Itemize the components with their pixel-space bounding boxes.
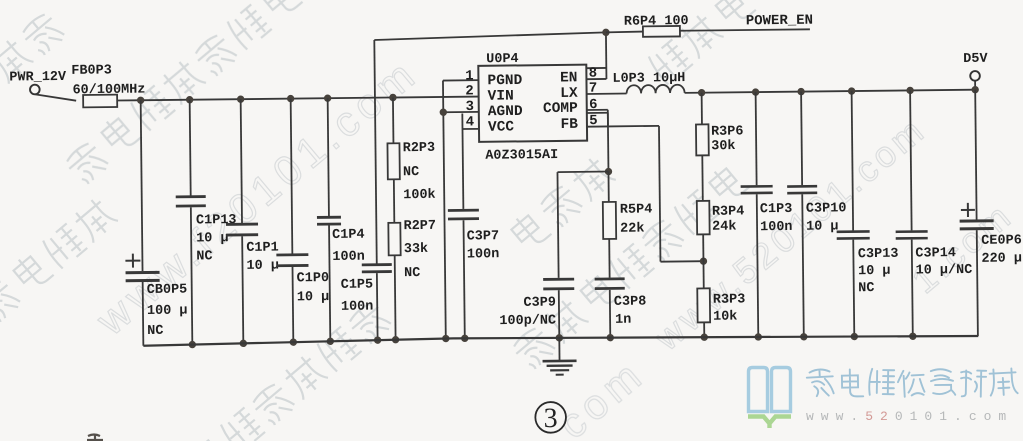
svg-text:33k: 33k xyxy=(404,242,428,257)
svg-text:R3P4: R3P4 xyxy=(712,204,745,219)
svg-text:FB: FB xyxy=(560,117,578,133)
svg-text:1n: 1n xyxy=(615,313,631,328)
wire terminal to bead xyxy=(35,94,76,101)
svg-text:10 μ: 10 μ xyxy=(297,290,330,305)
capacitor CB0P5 100u NC electrolytic xyxy=(124,100,188,346)
svg-text:C1P5: C1P5 xyxy=(341,278,374,293)
junction C3P13 bottom xyxy=(851,333,858,340)
ground symbol xyxy=(542,338,576,375)
svg-text:U0P4: U0P4 xyxy=(486,52,519,67)
junction R3P6 top xyxy=(698,89,705,96)
svg-text:PWR_12V: PWR_12V xyxy=(9,70,67,86)
svg-text:10 μ: 10 μ xyxy=(806,219,839,234)
ferrite bead FB0P3 60/100MHz xyxy=(71,63,145,108)
svg-text:C3P8: C3P8 xyxy=(614,295,647,310)
junction C1P13 bottom xyxy=(189,341,196,348)
junction FB divider xyxy=(700,257,707,264)
junction R3P3 bottom xyxy=(701,333,708,340)
junction C1P4 top xyxy=(324,94,331,101)
svg-text:C1P13: C1P13 xyxy=(196,213,237,228)
resistor R6P4 100 xyxy=(606,14,689,37)
resistor R2P7 33k NC xyxy=(388,179,437,340)
capacitor C1P1 10u xyxy=(225,99,280,344)
junction C1P3 bottom xyxy=(755,333,762,340)
logo book icon xyxy=(749,368,791,412)
watermark band bottom-center xyxy=(188,298,393,441)
junction C3P13 top xyxy=(848,87,855,94)
capacitor C1P5 100n xyxy=(340,265,392,341)
svg-text:22k: 22k xyxy=(620,222,644,237)
svg-text:NC: NC xyxy=(403,165,419,180)
wire LX to inductor xyxy=(587,93,627,95)
svg-text:100k: 100k xyxy=(403,188,436,203)
svg-text:R2P3: R2P3 xyxy=(403,141,436,156)
svg-text:C3P9: C3P9 xyxy=(523,296,556,311)
svg-text:10 μ/NC: 10 μ/NC xyxy=(915,263,972,279)
svg-text:10k: 10k xyxy=(713,310,737,325)
node D5V terminal xyxy=(963,52,989,90)
junction C3P7 bottom xyxy=(461,335,468,342)
wire POWER_EN from C1P5 riser to R6P4 xyxy=(374,32,606,40)
wire PGND/AGND down to ground rail xyxy=(443,81,446,339)
svg-text:www.520101.com: www.520101.com xyxy=(806,409,1013,424)
resistor R3P6 30k xyxy=(696,92,744,155)
inductor L0P3 10uH xyxy=(612,71,685,94)
capacitor C3P8 1n xyxy=(594,239,646,338)
junction C3P14 top xyxy=(906,87,913,94)
svg-text:C1P3: C1P3 xyxy=(760,202,793,217)
junction C1P1 bottom xyxy=(240,340,247,347)
capacitor C1P3 100n xyxy=(740,92,794,337)
capacitor C1P13 10u NC xyxy=(175,99,238,345)
svg-text:COMP: COMP xyxy=(543,101,578,117)
svg-text:C3P7: C3P7 xyxy=(467,229,500,244)
resistor R3P3 10k xyxy=(697,234,746,337)
junction C3P10 top xyxy=(797,88,804,95)
junction R2P7 bottom xyxy=(392,336,399,343)
junction C1P0 top xyxy=(287,95,294,102)
pin 1 PGND stub xyxy=(443,79,478,81)
junction COMP node xyxy=(605,168,612,175)
cut-off dark mark bottom-left xyxy=(87,434,103,441)
svg-text:AGND: AGND xyxy=(488,104,523,120)
junction C1P13 top xyxy=(186,96,193,103)
pin 3 AGND stub xyxy=(443,111,478,113)
svg-text:PGND: PGND xyxy=(487,73,522,89)
capacitor C3P14 10u/NC xyxy=(894,90,973,337)
junction C3P14 bottom xyxy=(909,333,916,340)
junction C1P5 bottom xyxy=(374,336,381,343)
svg-text:C3P13: C3P13 xyxy=(858,247,899,262)
svg-text:A0Z3015AI: A0Z3015AI xyxy=(485,148,558,164)
capacitor C1P0 10u xyxy=(275,98,330,342)
junction POWER_EN/EN xyxy=(602,29,609,36)
svg-text:10 μ: 10 μ xyxy=(196,231,229,246)
svg-text:5: 5 xyxy=(589,113,598,129)
svg-text:6: 6 xyxy=(589,97,598,113)
svg-text:3: 3 xyxy=(544,403,558,434)
capacitor C3P10 10u xyxy=(786,91,848,337)
wire COMP down xyxy=(607,110,610,172)
resistor R5P4 22k xyxy=(602,171,652,239)
pin 4 VCC stub xyxy=(462,128,478,130)
svg-text:100n: 100n xyxy=(332,250,365,265)
svg-text:100p/NC: 100p/NC xyxy=(499,314,556,330)
svg-text:FB0P3: FB0P3 xyxy=(71,63,112,78)
svg-text:3: 3 xyxy=(465,99,474,115)
watermark band top-left corner xyxy=(0,10,67,85)
capacitor CE0P6 220u electrolytic xyxy=(958,89,1023,336)
junction C1P3 top xyxy=(752,88,759,95)
watermark band left-bottom xyxy=(0,195,119,325)
wire POWER_EN riser xyxy=(374,40,376,263)
svg-text:EN: EN xyxy=(560,70,578,86)
op-amp/regulator U0P4 A0Z3015AI xyxy=(478,51,587,164)
capacitor C3P7 100n xyxy=(447,129,500,339)
pin 6 COMP stub xyxy=(587,109,608,111)
svg-text:220 μ: 220 μ xyxy=(981,251,1022,266)
svg-text:C1P4: C1P4 xyxy=(332,228,365,243)
svg-text:CB0P5: CB0P5 xyxy=(147,283,188,298)
svg-text:D5V: D5V xyxy=(963,52,988,67)
capacitor C3P13 10u NC xyxy=(835,91,899,337)
resistor R3P4 24k xyxy=(696,155,744,235)
capacitor C1P4 100n xyxy=(316,98,366,342)
wire D5V output rail xyxy=(685,90,976,93)
junction C1P0 bottom xyxy=(290,338,297,345)
svg-text:VCC: VCC xyxy=(488,119,515,135)
svg-text:C3P14: C3P14 xyxy=(915,246,956,261)
junction C3P10 bottom xyxy=(800,333,807,340)
junction C1P4 bottom xyxy=(327,338,334,345)
svg-text:VIN: VIN xyxy=(488,88,514,104)
svg-text:R2P7: R2P7 xyxy=(403,219,436,234)
junction CB0P5 xyxy=(137,97,144,104)
wire EN riser to pin8 xyxy=(605,32,608,79)
wire COMP node to C3P9 xyxy=(557,171,608,174)
wire main 12V rail xyxy=(117,97,478,101)
junction R2P3 top xyxy=(389,94,396,101)
junction C1P1 top xyxy=(237,95,244,102)
svg-text:30k: 30k xyxy=(711,139,735,154)
svg-text:10 μ: 10 μ xyxy=(246,259,279,274)
watermark band top-left xyxy=(62,0,304,187)
junction AGND xyxy=(440,109,447,116)
capacitor C3P9 100p/NC xyxy=(498,172,575,339)
svg-text:24k: 24k xyxy=(712,220,736,235)
svg-text:10 μ: 10 μ xyxy=(858,264,891,279)
svg-text:C1P0: C1P0 xyxy=(297,271,330,286)
node circled 3 page marker xyxy=(535,402,566,434)
svg-text:R3P3: R3P3 xyxy=(713,292,746,307)
svg-text:NC: NC xyxy=(196,249,212,264)
svg-text:100n: 100n xyxy=(760,220,793,235)
svg-text:LX: LX xyxy=(560,86,578,102)
junction C3P9 bottom xyxy=(556,334,563,341)
junction C3P8 bottom xyxy=(607,334,614,341)
junction PGND rail bottom xyxy=(442,335,449,342)
svg-text:R5P4: R5P4 xyxy=(620,202,653,217)
svg-text:NC: NC xyxy=(147,324,163,339)
svg-text:100n: 100n xyxy=(467,247,500,262)
svg-text:8: 8 xyxy=(589,66,598,82)
svg-text:NC: NC xyxy=(404,266,420,281)
resistor R2P3 NC 100k xyxy=(387,97,436,203)
svg-text:POWER_EN: POWER_EN xyxy=(746,13,813,30)
svg-text:NC: NC xyxy=(858,281,874,296)
pin 5 FB stub box xyxy=(587,112,608,114)
node PWR_12V input terminal xyxy=(9,70,67,95)
svg-text:C3P10: C3P10 xyxy=(806,201,847,216)
svg-text:2: 2 xyxy=(465,83,474,99)
svg-text:100n: 100n xyxy=(341,300,374,315)
logo book swoosh xyxy=(748,417,791,429)
junction CE0P6 top xyxy=(971,86,978,93)
watermark band top-right corner xyxy=(645,0,756,85)
pin 8 EN stub box xyxy=(586,67,606,69)
svg-text:100 μ: 100 μ xyxy=(147,304,188,319)
logo chinese title strokes xyxy=(806,369,833,397)
watermark band center-right xyxy=(509,161,751,372)
svg-text:4: 4 xyxy=(466,114,475,130)
wire ground rail xyxy=(143,333,978,346)
svg-text:C1P1: C1P1 xyxy=(246,241,279,256)
wire FB to divider xyxy=(608,125,659,128)
watermark band below chip xyxy=(508,154,617,254)
wire R6P4 to POWER_EN label xyxy=(680,29,810,30)
svg-text:1: 1 xyxy=(465,68,474,84)
svg-text:CE0P6: CE0P6 xyxy=(981,233,1022,248)
svg-text:R3P6: R3P6 xyxy=(711,124,744,139)
